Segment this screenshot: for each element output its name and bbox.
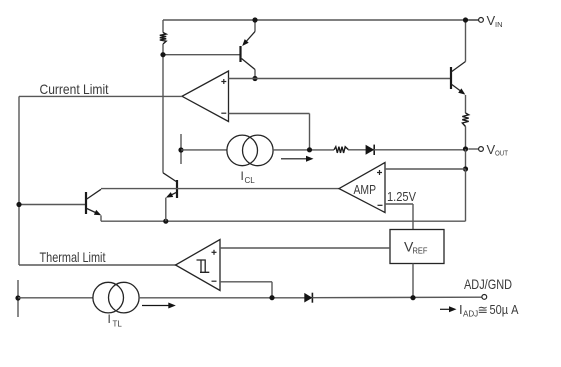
resistor R2 xyxy=(334,147,349,153)
current arrow I_ADJ xyxy=(440,306,457,312)
current source I_TL xyxy=(93,282,139,313)
transistor Q1 (PNP) xyxy=(241,20,256,79)
label I_CL xyxy=(241,169,256,185)
svg-text:ADJ: ADJ xyxy=(463,309,478,318)
svg-text:CL: CL xyxy=(245,176,256,185)
terminal ADJ/GND xyxy=(482,295,487,300)
wire V_OUT node down to bottom rail xyxy=(101,169,466,221)
node U3 feedback junction xyxy=(269,295,274,300)
node AMP + junction xyxy=(463,166,468,171)
terminal V_IN xyxy=(468,18,483,23)
svg-text:≅: ≅ xyxy=(478,303,488,317)
label AMP xyxy=(354,182,377,197)
wire Q3 collector to Q4 base to AMP output xyxy=(101,188,339,190)
wire I_TL output xyxy=(139,297,305,299)
node V_OUT junction xyxy=(463,146,468,151)
node I_TL stub junction xyxy=(15,295,20,300)
label V_OUT xyxy=(487,142,509,157)
current arrow I_CL xyxy=(281,156,314,162)
wire I_CL stub to source xyxy=(181,149,227,151)
svg-text:ADJ/GND: ADJ/GND xyxy=(464,276,512,292)
wire U3 - input feedback xyxy=(220,282,272,298)
resistor R3 xyxy=(462,113,468,127)
label ADJ/GND xyxy=(464,276,512,292)
wire D1 to V_OUT node xyxy=(374,149,464,151)
svg-text:1.25V: 1.25V xyxy=(387,190,417,204)
svg-text:OUT: OUT xyxy=(495,149,508,158)
wire I_TL left stub xyxy=(17,280,19,317)
wire AMP - input to V_REF (1.25V node) xyxy=(385,204,413,230)
current source I_CL xyxy=(227,135,273,166)
node I_CL stub junction xyxy=(178,147,183,152)
wire Q1 base lead xyxy=(163,54,240,56)
svg-text:REF: REF xyxy=(413,247,428,256)
label I_ADJ = 50uA xyxy=(459,302,519,319)
wire V_REF to ADJ rail xyxy=(412,264,414,298)
wire Q3 base lead xyxy=(19,204,85,206)
label V_IN xyxy=(487,13,503,29)
node left rail / Q3 base xyxy=(16,202,21,207)
node V_REF / ADJ junction xyxy=(410,295,415,300)
wire R3 to V_OUT xyxy=(465,127,467,150)
op-amp U3 (thermal limit comparator with hysteresis) xyxy=(176,240,221,291)
op-amp U1 (current limit comparator) xyxy=(182,71,229,122)
svg-text:IN: IN xyxy=(495,20,503,29)
node top rail / Q1 emitter xyxy=(252,17,257,22)
label 1.25V xyxy=(387,190,417,204)
label Thermal Limit xyxy=(40,249,106,265)
wire AMP + input to V_OUT node xyxy=(385,168,466,170)
wire R2 to D1 xyxy=(348,149,366,151)
svg-text:Current Limit: Current Limit xyxy=(40,81,109,97)
transistor Q2 (series pass NPN) xyxy=(451,20,466,113)
svg-text:AMP: AMP xyxy=(354,182,377,197)
svg-text:50µ A: 50µ A xyxy=(490,302,519,317)
node I_CL / U1 feedback junction xyxy=(307,147,312,152)
node R1/Q1 base junction xyxy=(160,52,165,57)
diode D2 xyxy=(304,293,312,303)
label Current Limit xyxy=(40,81,109,97)
svg-text:TL: TL xyxy=(113,320,123,329)
label V_REF xyxy=(404,239,428,256)
op-amp U2 (AMP) xyxy=(339,163,385,213)
resistor R1 xyxy=(160,33,166,45)
wire I_CL output xyxy=(273,149,334,151)
diode D1 xyxy=(366,145,375,155)
svg-text:I: I xyxy=(241,169,244,183)
terminal V_OUT xyxy=(468,147,483,152)
block V_REF xyxy=(390,230,444,264)
wire U1 output (Current Limit) xyxy=(19,95,182,97)
node Q4 emitter on bottom rail xyxy=(163,219,168,224)
node V_IN rail / Q2 collector xyxy=(463,17,468,22)
transistor Q4 (NPN) xyxy=(163,173,177,221)
svg-text:I: I xyxy=(108,312,111,326)
wire I_CL left stub xyxy=(180,134,182,164)
current arrow I_TL xyxy=(142,303,176,309)
svg-text:Thermal Limit: Thermal Limit xyxy=(40,249,106,265)
wire U1 + input to drive rail xyxy=(229,78,451,80)
wire thermal limit output xyxy=(19,264,176,266)
wire D2 to ADJ terminal xyxy=(312,296,482,299)
node Q1 collector / drive rail xyxy=(252,76,257,81)
wire left rail xyxy=(18,96,20,265)
wire R1 rail down (node to Q4 collector) xyxy=(162,44,164,173)
wire top rail to V_IN xyxy=(163,19,479,21)
wire R1 upper stub xyxy=(162,20,164,33)
wire I_TL stub to source xyxy=(18,297,93,299)
wire U3 + input to V_REF xyxy=(220,247,390,249)
wire V_OUT down to AMP input xyxy=(465,149,467,169)
wire U1 - input feedback xyxy=(229,114,310,150)
label I_TL xyxy=(108,312,123,329)
transistor Q3 (NPN) xyxy=(86,189,101,221)
